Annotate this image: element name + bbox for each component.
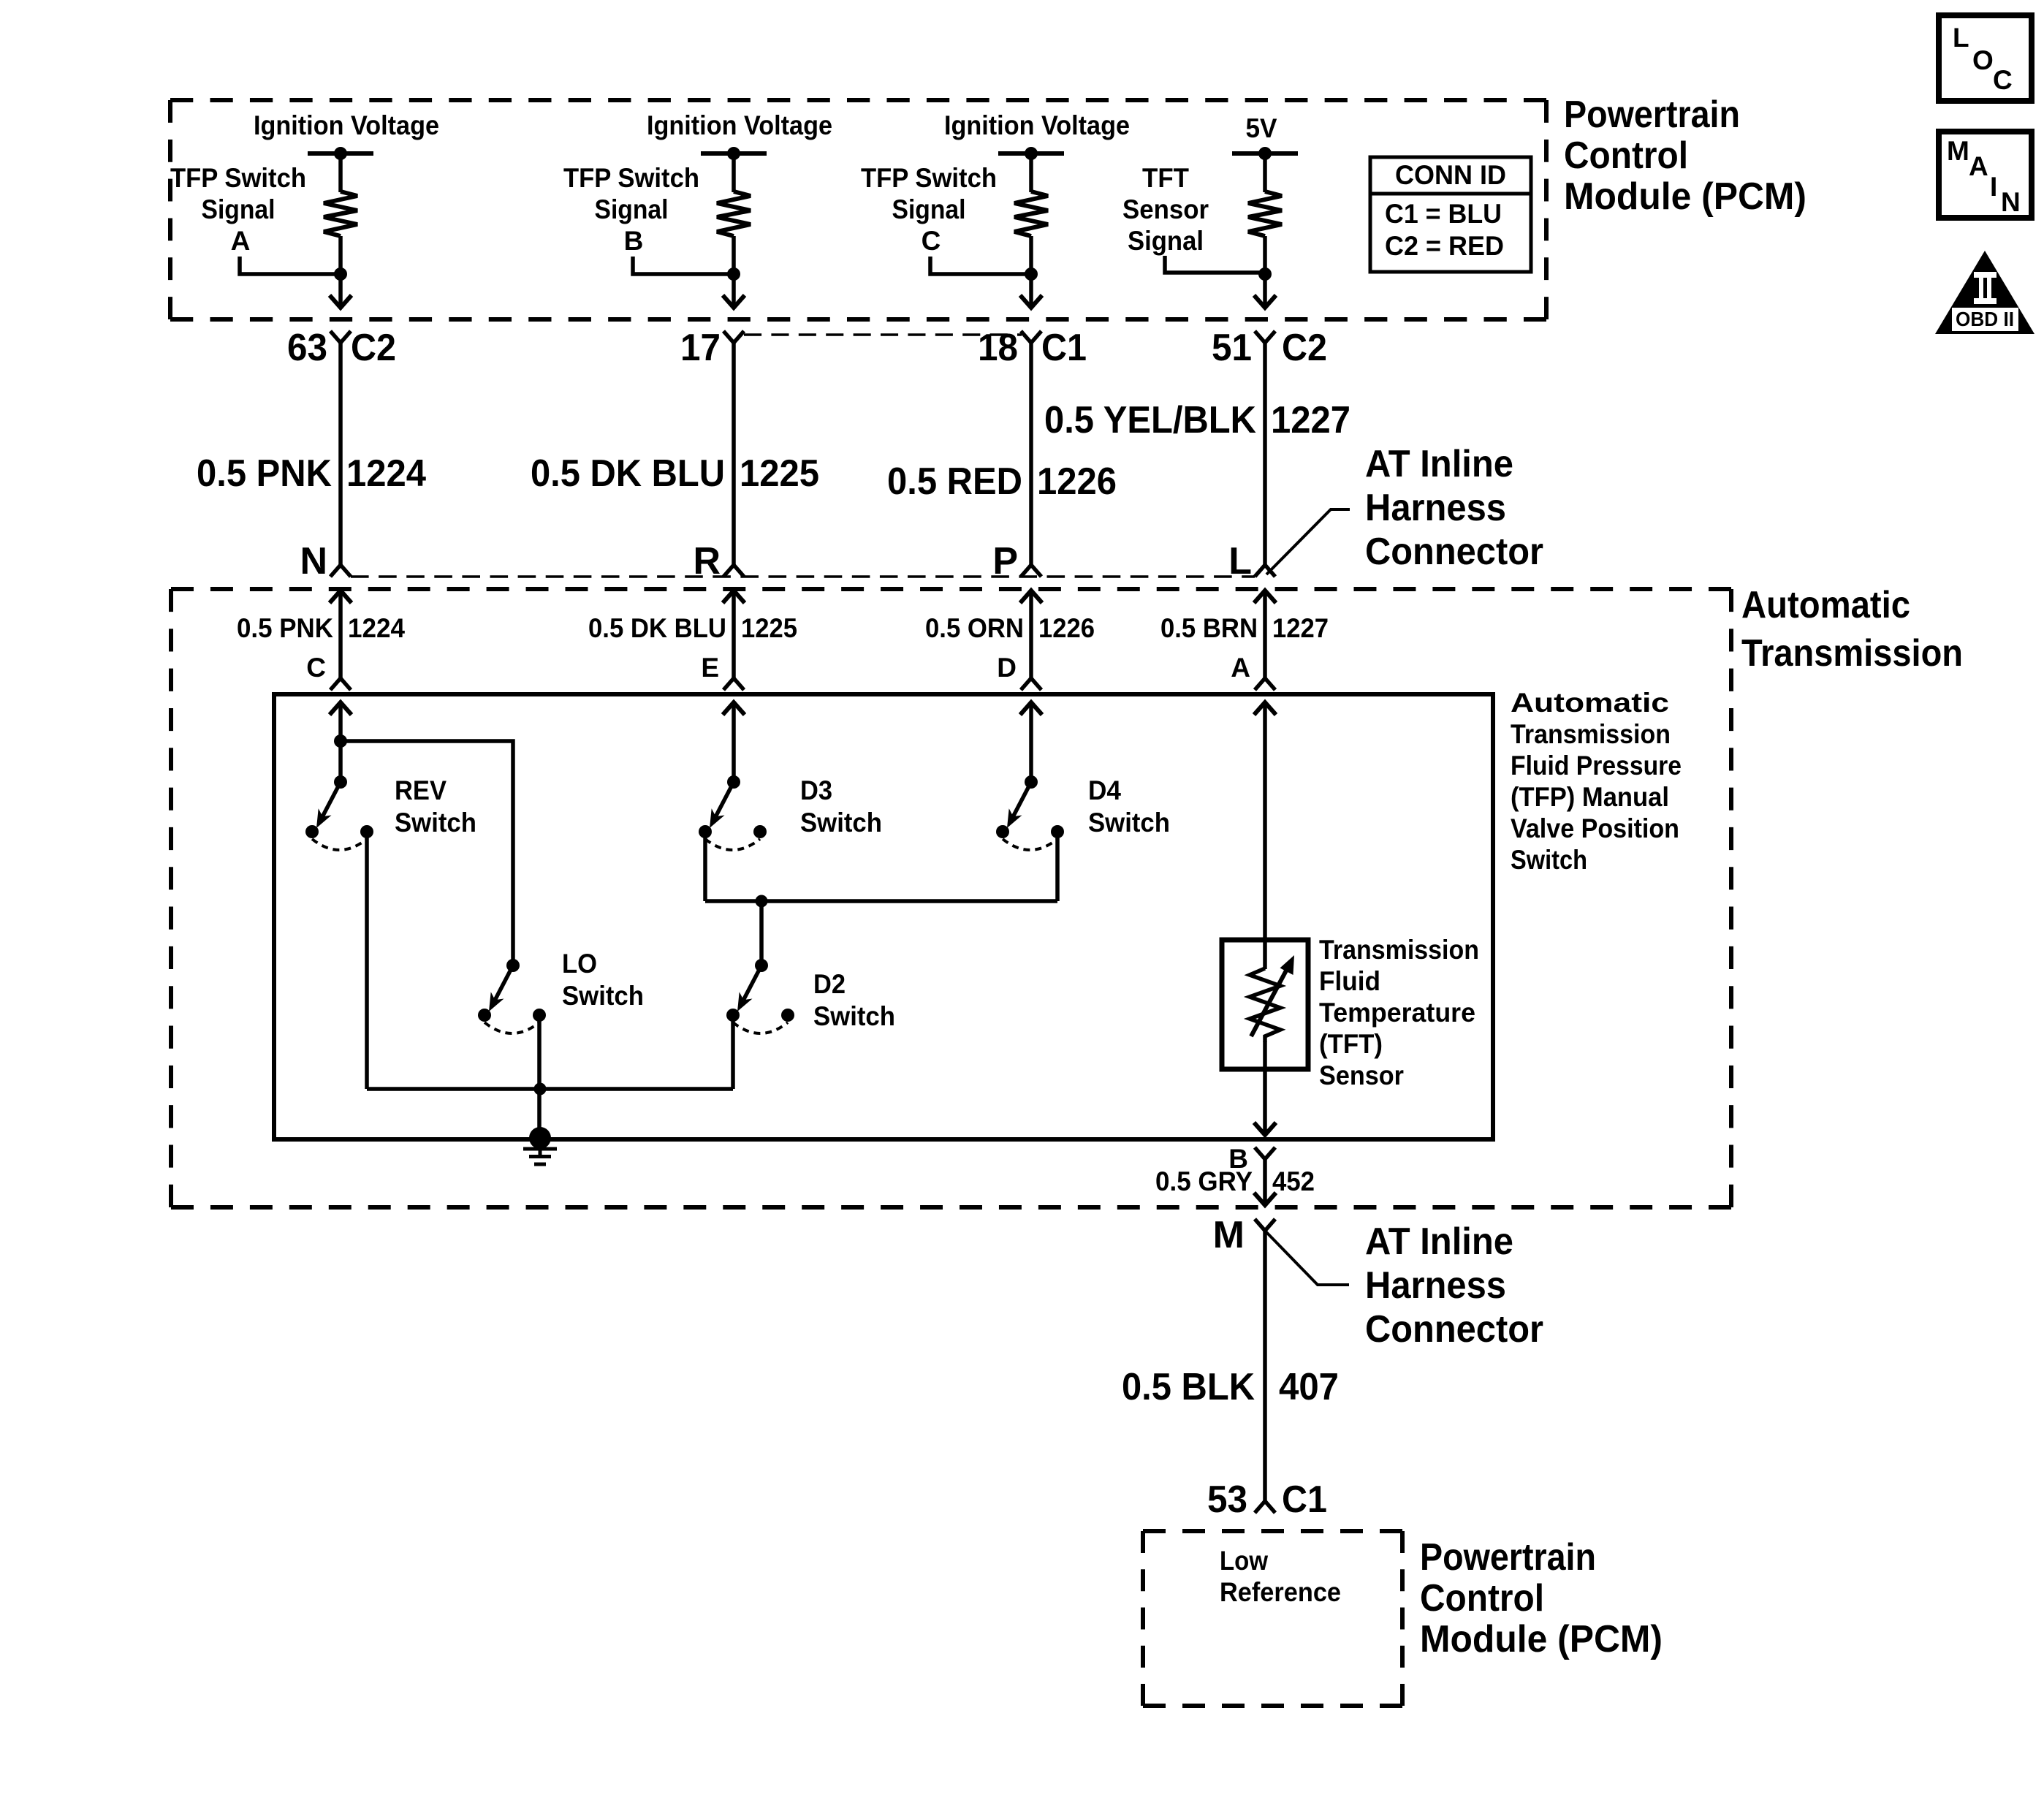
- svg-text:407: 407: [1279, 1366, 1339, 1408]
- LO switch lever arm: [495, 965, 513, 1000]
- wire into transmission column 1: [338, 591, 343, 678]
- wire M to PCM pin 53: [1263, 1231, 1267, 1501]
- svg-text:TFP Switch: TFP Switch: [861, 163, 997, 193]
- transmission output arrow pin M: [1254, 1193, 1276, 1205]
- D4 switch output wire: [1055, 832, 1060, 901]
- D4 switch input arrow: [1020, 702, 1042, 715]
- svg-text:D2: D2: [813, 969, 846, 999]
- label: TFP Switch Signal C: [861, 163, 997, 256]
- transmission input arrow pin A: [1254, 591, 1276, 603]
- svg-text:D: D: [997, 653, 1017, 683]
- svg-text:REV: REV: [395, 775, 447, 805]
- svg-text:Harness: Harness: [1365, 487, 1506, 529]
- svg-text:1224: 1224: [346, 452, 426, 495]
- svg-text:Sensor: Sensor: [1122, 194, 1209, 224]
- D3 switch input arrow: [723, 702, 745, 715]
- resistor pull-up R2 in PCM: [717, 191, 751, 236]
- junction dot at supply (column 4): [1258, 147, 1272, 160]
- svg-text:Switch: Switch: [1511, 845, 1587, 875]
- LO switch right contact dot: [533, 1009, 546, 1022]
- label: wire 0.5 DK BLU 1225 (inside transmission): [588, 613, 797, 643]
- inline harness fork pin R: [723, 565, 744, 577]
- junction dot at signal node (column 2): [727, 267, 740, 281]
- wire pin B to harness: [1263, 1159, 1267, 1204]
- inline harness fork pin L: [1255, 565, 1275, 577]
- svg-text:(TFT): (TFT): [1319, 1029, 1383, 1059]
- signal stub wire TFT: [1165, 256, 1265, 273]
- TFP manual valve position switch box: [274, 694, 1493, 1139]
- label: Automatic Transmission Fluid Pressure (TFP) Manual Valve Position Switch: [1511, 688, 1682, 875]
- label: pin 51 C2: [1212, 327, 1327, 369]
- REV switch travel arc (dashed): [312, 839, 367, 850]
- label: Automatic Transmission title: [1741, 584, 1963, 675]
- svg-text:17: 17: [680, 327, 721, 369]
- label: REV Switch: [395, 775, 476, 838]
- svg-text:C: C: [1993, 65, 2013, 95]
- wire branch to LO switch: [341, 741, 513, 965]
- svg-text:Control: Control: [1420, 1577, 1544, 1620]
- svg-text:Valve Position: Valve Position: [1511, 813, 1679, 843]
- D2 switch travel arc (dashed): [733, 1022, 788, 1033]
- MAIN icon box: [1939, 132, 2032, 218]
- label: wire 0.5 GRY 452: [1155, 1166, 1315, 1196]
- label: Powertrain Control Module (PCM) title (top): [1564, 94, 1806, 218]
- ground symbol: [523, 1127, 557, 1164]
- label: D4 Switch: [1088, 775, 1170, 838]
- label: D2 Switch: [813, 969, 895, 1031]
- svg-text:Fluid: Fluid: [1319, 966, 1380, 996]
- svg-text:Control: Control: [1564, 134, 1688, 177]
- resistor pull-up R1 in PCM: [324, 191, 357, 236]
- label: TFT Sensor Signal: [1122, 163, 1209, 256]
- svg-text:Automatic: Automatic: [1511, 688, 1669, 718]
- wire harness segment column 4: [1263, 343, 1267, 565]
- junction dot at signal node (column 3): [1025, 267, 1038, 281]
- LOC icon box: [1939, 15, 2032, 101]
- D2 switch left contact dot: [726, 1009, 740, 1022]
- wire to TFT sensor: [1263, 702, 1267, 969]
- svg-text:D4: D4: [1088, 775, 1121, 805]
- svg-text:TFP Switch: TFP Switch: [563, 163, 699, 193]
- junction dot middle bus to D2: [756, 895, 768, 908]
- svg-text:Module (PCM): Module (PCM): [1420, 1618, 1663, 1660]
- svg-text:C: C: [306, 653, 326, 683]
- svg-text:1226: 1226: [1037, 460, 1117, 503]
- svg-text:5V: 5V: [1246, 113, 1277, 143]
- wire resistor to node (column 2): [732, 236, 736, 307]
- svg-text:Ignition Voltage: Ignition Voltage: [254, 110, 439, 140]
- LO switch left contact dot: [478, 1009, 491, 1022]
- label: D3 Switch: [800, 775, 882, 838]
- leader line to AT Inline Harness Connector (lower): [1265, 1231, 1349, 1285]
- svg-text:1225: 1225: [740, 452, 819, 495]
- TFP box output arrow pin B: [1254, 1123, 1276, 1135]
- PCM output pin arrow (column 3): [1020, 295, 1042, 308]
- inline connector dashed line (pins 17-18): [744, 333, 1022, 336]
- label: LO Switch: [562, 949, 644, 1011]
- svg-text:D3: D3: [800, 775, 832, 805]
- D3 switch lever arm: [715, 782, 734, 816]
- label: pin 18 C1: [978, 327, 1087, 369]
- label: Powertrain Control Module (PCM) title (bottom): [1420, 1536, 1663, 1660]
- svg-text:Harness: Harness: [1365, 1264, 1506, 1307]
- svg-text:Powertrain: Powertrain: [1564, 94, 1740, 136]
- label: wire 0.5 PNK 1224: [197, 452, 426, 495]
- signal stub wire A (column 1): [240, 257, 341, 274]
- label: AT Inline Harness Connector (upper): [1365, 443, 1543, 573]
- wire to D4 switch: [1029, 702, 1033, 782]
- svg-text:0.5 RED: 0.5 RED: [887, 460, 1022, 503]
- svg-text:Signal: Signal: [595, 194, 669, 224]
- wire supply to resistor (column 4): [1263, 153, 1267, 192]
- svg-text:LO: LO: [562, 949, 597, 979]
- wire to REV switch: [338, 702, 343, 782]
- label: wire 0.5 PNK 1224 (inside transmission): [237, 613, 405, 643]
- signal stub wire C (column 3): [930, 257, 1031, 274]
- svg-text:Ignition Voltage: Ignition Voltage: [944, 110, 1130, 140]
- label: wire 0.5 RED 1226: [887, 460, 1117, 503]
- D3 switch output wire: [703, 832, 707, 901]
- TFP switch fork pin E: [723, 678, 744, 690]
- leader line to AT Inline Harness Connector (upper): [1266, 509, 1350, 574]
- svg-text:0.5 YEL/BLK: 0.5 YEL/BLK: [1044, 399, 1256, 441]
- svg-text:N: N: [2001, 187, 2021, 217]
- inline harness fork pin N: [330, 565, 351, 577]
- D4 switch lever arm: [1013, 782, 1031, 816]
- D2 switch right contact dot: [781, 1009, 794, 1022]
- svg-text:0.5 PNK: 0.5 PNK: [197, 452, 332, 495]
- label: wire 0.5 BLK 407: [1122, 1366, 1339, 1408]
- D4 switch pivot dot: [1025, 775, 1038, 789]
- svg-text:Module (PCM): Module (PCM): [1564, 175, 1806, 218]
- junction dot at ground branch: [534, 1083, 547, 1096]
- wire resistor to node (column 1): [338, 236, 343, 307]
- svg-text:51: 51: [1212, 327, 1252, 369]
- PCM connector fork pin 51: [1255, 331, 1275, 343]
- resistor pull-up R4 in PCM: [1248, 191, 1282, 236]
- TFP switch fork pin C: [330, 678, 351, 690]
- OBD II triangle icon: [1935, 251, 2034, 334]
- D4 switch travel arc (dashed): [1003, 839, 1057, 850]
- wire supply to resistor (column 1): [338, 153, 343, 192]
- CONN ID table divider: [1370, 192, 1531, 196]
- PCM output pin arrow (column 1): [330, 295, 352, 308]
- PCM output pin arrow (column 2): [723, 295, 745, 308]
- REV switch pivot dot: [334, 775, 347, 789]
- svg-text:0.5 GRY: 0.5 GRY: [1155, 1166, 1253, 1196]
- LO switch travel arc (dashed): [485, 1022, 539, 1033]
- wire harness segment column 1: [338, 343, 343, 565]
- D4 switch left contact dot: [996, 825, 1009, 838]
- signal stub wire B (column 2): [633, 257, 734, 274]
- svg-text:Transmission: Transmission: [1511, 719, 1671, 749]
- label: wire 0.5 BRN 1227 (inside transmission): [1160, 613, 1329, 643]
- svg-text:Transmission: Transmission: [1319, 935, 1479, 965]
- supply rail bar (column 3): [998, 151, 1064, 156]
- middle bus wire (D3-D4): [705, 899, 1057, 903]
- TFT sensor box: [1222, 940, 1308, 1069]
- svg-text:OBD II: OBD II: [1956, 308, 2014, 330]
- D4 switch right contact dot: [1051, 825, 1064, 838]
- svg-text:1227: 1227: [1271, 399, 1350, 441]
- svg-text:C1: C1: [1041, 327, 1087, 369]
- REV switch right contact dot: [360, 825, 373, 838]
- REV switch left contact dot: [305, 825, 319, 838]
- svg-text:C: C: [922, 226, 941, 256]
- svg-text:C2 = RED: C2 = RED: [1385, 231, 1504, 261]
- wire resistor to node (column 4): [1263, 236, 1267, 307]
- svg-text:B: B: [624, 226, 644, 256]
- wire into transmission column 3: [1029, 591, 1033, 678]
- transmission input arrow pin E: [723, 591, 745, 603]
- TFT sensor thermistor zigzag: [1250, 968, 1280, 1042]
- TFP switch fork pin A: [1255, 678, 1275, 690]
- PCM module box (top, dashed): [170, 100, 1546, 319]
- fork pin M: [1255, 1219, 1275, 1231]
- svg-text:Switch: Switch: [813, 1001, 895, 1031]
- label: TFP Switch Signal A: [170, 163, 306, 256]
- svg-text:A: A: [1969, 151, 1988, 181]
- bottom bus wire (REV/LO/D2): [367, 1087, 733, 1091]
- svg-text:0.5 BRN: 0.5 BRN: [1160, 613, 1258, 643]
- svg-text:Transmission: Transmission: [1741, 632, 1963, 675]
- svg-text:Signal: Signal: [1128, 226, 1204, 256]
- svg-text:1226: 1226: [1038, 613, 1095, 643]
- D3 switch right contact dot: [753, 825, 767, 838]
- label: wire 0.5 DK BLU 1225: [531, 452, 819, 495]
- D3 switch pivot dot: [727, 775, 740, 789]
- CONN ID table box: [1370, 157, 1531, 272]
- AT inline harness dashed line (N-L): [351, 575, 1255, 578]
- wire into transmission column 2: [732, 591, 736, 678]
- svg-text:452: 452: [1272, 1166, 1315, 1196]
- wire into transmission column 4: [1263, 591, 1267, 678]
- svg-text:Reference: Reference: [1220, 1577, 1341, 1607]
- fork pin B: [1255, 1147, 1275, 1159]
- svg-text:Low: Low: [1220, 1546, 1268, 1576]
- label: AT Inline Harness Connector (lower): [1365, 1220, 1543, 1351]
- svg-text:TFP Switch: TFP Switch: [170, 163, 306, 193]
- PCM connector fork pin 63: [330, 331, 351, 343]
- wire middle bus to D2 switch: [759, 901, 764, 965]
- PCM connector fork pin 18: [1021, 331, 1041, 343]
- Automatic Transmission box (dashed): [171, 589, 1731, 1207]
- REV switch lever arm: [322, 782, 341, 816]
- svg-text:0.5 ORN: 0.5 ORN: [925, 613, 1024, 643]
- svg-text:Powertrain: Powertrain: [1420, 1536, 1596, 1579]
- svg-text:L: L: [1953, 23, 1969, 53]
- D2 switch pivot dot: [755, 959, 768, 972]
- svg-text:A: A: [231, 226, 251, 256]
- fork pin 53 C1: [1255, 1501, 1275, 1513]
- svg-text:0.5 PNK: 0.5 PNK: [237, 613, 333, 643]
- wire harness segment column 3: [1029, 343, 1033, 565]
- svg-text:0.5 DK BLU: 0.5 DK BLU: [531, 452, 725, 495]
- svg-text:0.5 DK BLU: 0.5 DK BLU: [588, 613, 726, 643]
- svg-text:1224: 1224: [348, 613, 405, 643]
- svg-text:18: 18: [978, 327, 1018, 369]
- label: pin 17: [680, 327, 721, 369]
- junction dot at supply (column 3): [1025, 147, 1038, 160]
- svg-text:Signal: Signal: [892, 194, 966, 224]
- PCM connector fork pin 17: [723, 331, 744, 343]
- transmission input arrow pin C: [330, 591, 352, 603]
- svg-text:53: 53: [1207, 1478, 1247, 1521]
- supply rail bar (column 2): [701, 151, 767, 156]
- LO switch output wire: [537, 1015, 542, 1138]
- svg-text:Automatic: Automatic: [1741, 584, 1910, 626]
- PCM output pin arrow (column 4): [1254, 295, 1276, 308]
- wire supply to resistor (column 2): [732, 153, 736, 192]
- svg-text:Sensor: Sensor: [1319, 1060, 1404, 1090]
- label: Low Reference: [1220, 1546, 1341, 1607]
- label: pin 53 C1: [1207, 1478, 1327, 1521]
- svg-text:M: M: [1213, 1214, 1245, 1256]
- label: wire 0.5 ORN 1226 (inside transmission): [925, 613, 1095, 643]
- svg-text:(TFP) Manual: (TFP) Manual: [1511, 782, 1669, 812]
- svg-text:Switch: Switch: [800, 808, 882, 838]
- svg-text:Signal: Signal: [202, 194, 276, 224]
- svg-text:M: M: [1947, 136, 1969, 166]
- TFT sensor variable arrow: [1251, 955, 1294, 1036]
- REV switch output wire: [365, 832, 369, 1089]
- label: TFP Switch Signal B: [563, 163, 699, 256]
- svg-text:Temperature: Temperature: [1319, 998, 1475, 1028]
- wire to D3 switch: [732, 702, 736, 782]
- svg-text:63: 63: [287, 327, 327, 369]
- svg-text:1225: 1225: [741, 613, 797, 643]
- PCM module box (bottom, dashed): [1143, 1531, 1402, 1706]
- svg-text:C2: C2: [351, 327, 396, 369]
- svg-text:0.5 BLK: 0.5 BLK: [1122, 1366, 1255, 1408]
- TFT sensor input arrow: [1254, 702, 1276, 715]
- svg-text:O: O: [1972, 45, 1994, 75]
- svg-text:Connector: Connector: [1365, 1308, 1543, 1351]
- svg-text:1227: 1227: [1272, 613, 1329, 643]
- junction dot at supply (column 2): [727, 147, 740, 160]
- svg-text:C2: C2: [1282, 327, 1327, 369]
- LO switch pivot dot: [506, 959, 520, 972]
- D3 switch left contact dot: [699, 825, 712, 838]
- wire supply to resistor (column 3): [1029, 153, 1033, 192]
- svg-text:Switch: Switch: [1088, 808, 1170, 838]
- label: Transmission Fluid Temperature (TFT) Sensor: [1319, 935, 1479, 1090]
- svg-text:AT Inline: AT Inline: [1365, 443, 1513, 485]
- wire harness segment column 2: [732, 343, 736, 565]
- junction dot at supply (column 1): [334, 147, 347, 160]
- svg-text:Ignition Voltage: Ignition Voltage: [647, 110, 832, 140]
- label: wire 0.5 YEL/BLK 1227: [1044, 399, 1350, 441]
- supply rail bar (column 1): [308, 151, 373, 156]
- inline harness fork pin P: [1021, 565, 1041, 577]
- svg-text:AT Inline: AT Inline: [1365, 1220, 1513, 1263]
- D3 switch travel arc (dashed): [705, 839, 760, 850]
- svg-text:I: I: [1990, 172, 1997, 202]
- svg-text:Switch: Switch: [395, 808, 476, 838]
- svg-text:E: E: [701, 653, 719, 683]
- svg-text:TFT: TFT: [1142, 163, 1189, 193]
- transmission input arrow pin D: [1020, 591, 1042, 603]
- svg-text:N: N: [300, 540, 327, 582]
- junction dot REV/LO branch: [334, 734, 347, 748]
- svg-text:C1: C1: [1282, 1478, 1327, 1521]
- D2 switch output wire: [731, 1015, 735, 1089]
- wire resistor to node (column 3): [1029, 236, 1033, 307]
- svg-text:A: A: [1231, 653, 1250, 683]
- TFP switch fork pin D: [1021, 678, 1041, 690]
- junction dot at signal node (column 1): [334, 267, 347, 281]
- junction dot at signal node (column 4): [1258, 267, 1272, 281]
- svg-text:Switch: Switch: [562, 981, 644, 1011]
- label: pin 63 C2: [287, 327, 396, 369]
- svg-text:Fluid Pressure: Fluid Pressure: [1511, 751, 1682, 781]
- svg-text:Connector: Connector: [1365, 531, 1543, 573]
- svg-text:CONN ID: CONN ID: [1395, 160, 1506, 190]
- supply rail bar (column 4): [1232, 151, 1298, 156]
- resistor pull-up R3 in PCM: [1014, 191, 1048, 236]
- wire TFT sensor to pin B: [1263, 1041, 1267, 1134]
- svg-text:C1 = BLU: C1 = BLU: [1385, 199, 1502, 229]
- D2 switch lever arm: [743, 965, 761, 1000]
- REV switch input arrow: [330, 702, 352, 715]
